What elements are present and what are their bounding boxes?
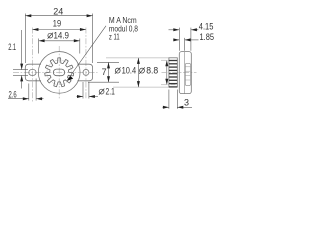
svg-text:14.9: 14.9 [54, 30, 70, 40]
side view plate/boss step line [184, 52, 186, 94]
center slot hole [53, 69, 64, 76]
side view flange body [179, 52, 191, 94]
gear pitch circle front [47, 60, 72, 85]
centerline horizontal front view [13, 71, 98, 73]
svg-text:8.8: 8.8 [146, 65, 158, 75]
svg-text:3: 3 [184, 97, 189, 107]
right hole D2.1 [83, 69, 89, 75]
ext lines gear OD side [106, 58, 177, 87]
dimension 19 [32, 29, 85, 31]
side view hub internal lines [185, 67, 190, 80]
dimension 1.85 [174, 38, 199, 51]
centerline left hole [31, 28, 33, 102]
flange left tab [25, 64, 41, 81]
gear teeth front view z11 [45, 58, 74, 87]
svg-text:4.15: 4.15 [199, 21, 214, 31]
dimension D14.9 [39, 39, 80, 54]
side view rear hub [185, 63, 190, 85]
flange right tab [77, 64, 92, 81]
dimension 2.1 left (slot height) [13, 30, 28, 89]
flange boss circle D14.9 [38, 52, 80, 94]
svg-text:2.1: 2.1 [8, 42, 16, 52]
dimension 24 [25, 14, 92, 64]
dimension 3 [163, 90, 193, 109]
svg-text:2.6: 2.6 [9, 89, 17, 99]
dimension 4.15 [169, 28, 199, 51]
side view gear block [169, 58, 177, 87]
svg-text:1.85: 1.85 [200, 32, 215, 42]
side view centerline [162, 71, 197, 73]
left slotted hole 2.6x2.1 [29, 70, 36, 76]
dimension D2.1 bottom right [77, 82, 99, 99]
svg-text:24: 24 [53, 7, 63, 17]
svg-text:z 11: z 11 [109, 33, 120, 42]
svg-text:2.1: 2.1 [106, 86, 115, 96]
dimension 7 (gear root dia) [88, 62, 119, 82]
dimension D8.8 [166, 60, 168, 85]
side view gear teeth stripes [169, 61, 177, 87]
centerline vertical front view [58, 46, 60, 100]
leader line to gear tooth [67, 26, 106, 81]
svg-text:19: 19 [53, 18, 61, 28]
dimension D10.4 [137, 58, 139, 87]
svg-text:7: 7 [102, 67, 107, 77]
centerline right hole [85, 28, 87, 100]
dimension 2.6 bottom left [8, 79, 44, 101]
svg-text:10.4: 10.4 [122, 65, 137, 75]
